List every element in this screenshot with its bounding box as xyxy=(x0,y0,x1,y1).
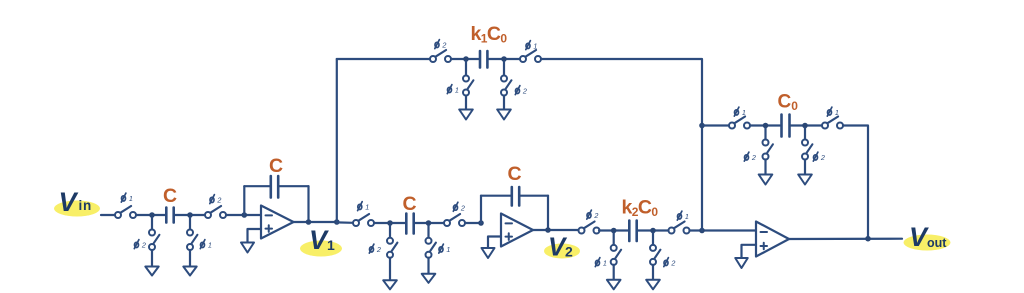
switch S15 phi1 (to ground) xyxy=(611,245,621,265)
svg-text:1: 1 xyxy=(603,259,607,268)
junction xyxy=(242,212,248,218)
switch S20 phi2 (to ground) xyxy=(802,140,812,160)
svg-text:2: 2 xyxy=(216,196,221,205)
junction xyxy=(802,123,808,129)
capacitor k2C0 xyxy=(629,221,636,242)
wire xyxy=(337,58,430,60)
switch S13 phi2 xyxy=(579,222,600,234)
wire (top branch to right corner and down) xyxy=(541,59,702,126)
svg-text:2: 2 xyxy=(670,259,675,268)
svg-text:V: V xyxy=(309,225,329,255)
svg-text:1: 1 xyxy=(835,108,839,117)
switch S12 phi1 (to ground) xyxy=(426,238,436,258)
junction xyxy=(611,228,617,234)
op-amp U2 xyxy=(501,214,533,247)
ground xyxy=(183,267,196,276)
label phi1 of S15 xyxy=(595,258,607,268)
wire xyxy=(279,185,309,187)
wire xyxy=(427,226,429,238)
capacitor C0 xyxy=(782,115,790,137)
label phi2 of S5 xyxy=(435,40,447,50)
junction xyxy=(699,228,705,234)
switch S3 phi2 (to ground) xyxy=(149,230,159,251)
svg-text:k1C0: k1C0 xyxy=(471,23,508,46)
label phi2 of S20 xyxy=(813,152,825,162)
label phi1 of S6 xyxy=(526,41,538,51)
wire xyxy=(503,96,505,110)
wire xyxy=(503,62,505,76)
wire xyxy=(804,128,806,139)
wire xyxy=(599,229,628,231)
switch S6 phi1 xyxy=(520,50,541,62)
label phi2 of S19 xyxy=(744,152,756,162)
junction xyxy=(463,56,469,62)
ground xyxy=(422,274,436,283)
highlight under Vout xyxy=(904,235,951,251)
label C (U2 feedback) xyxy=(508,163,522,185)
ground (U3) xyxy=(735,258,748,268)
label phi2 of S16 xyxy=(664,258,676,268)
label phi2 of S8 xyxy=(515,86,527,96)
junction xyxy=(650,228,656,234)
switch S1 phi1 xyxy=(115,206,136,218)
wire xyxy=(764,128,766,139)
svg-text:C: C xyxy=(508,163,522,185)
label C xyxy=(163,185,177,207)
wire xyxy=(613,265,615,280)
label Vin xyxy=(59,187,93,217)
wire (feedback right vertical) xyxy=(307,186,309,222)
svg-text:2: 2 xyxy=(460,203,465,212)
capacitor C (input sampling) xyxy=(166,208,173,223)
switch S2 phi2 xyxy=(205,206,226,218)
svg-text:1: 1 xyxy=(742,108,746,117)
label phi1 of S1 xyxy=(121,193,133,203)
label phi1 of S17 xyxy=(734,107,746,117)
label phi1 of S18 xyxy=(827,107,839,117)
junction xyxy=(478,220,484,226)
wire xyxy=(226,214,260,216)
switch S18 phi1 xyxy=(822,117,843,129)
svg-text:2: 2 xyxy=(376,245,381,254)
op-amp U3 xyxy=(756,222,789,257)
switch S7 phi1 (to ground) xyxy=(463,76,473,96)
svg-text:out: out xyxy=(927,236,947,250)
svg-text:1: 1 xyxy=(327,237,335,253)
label V2 xyxy=(548,232,573,262)
wire (U2 feedback right vertical) xyxy=(547,196,549,230)
wire xyxy=(764,160,766,175)
highlight under V1 xyxy=(300,241,342,257)
wire (U2 feedback left vertical) xyxy=(480,196,482,223)
junction xyxy=(763,123,769,129)
ground (U2) xyxy=(482,248,495,258)
wire xyxy=(652,265,654,280)
wire xyxy=(151,218,153,230)
wire xyxy=(175,214,205,216)
switch S5 phi2 xyxy=(430,50,451,62)
highlight under V2 xyxy=(544,244,580,259)
wire (C0 branch right corner down) xyxy=(843,126,868,239)
wire xyxy=(465,222,481,224)
label phi2 of S11 xyxy=(369,244,381,254)
label k2C0 xyxy=(622,197,659,220)
capacitor C (stage2 sampling) xyxy=(406,214,413,234)
capacitor C (U2 feedback) xyxy=(512,187,519,206)
wire xyxy=(638,229,669,231)
label phi2 of S13 xyxy=(587,210,599,220)
switch S19 phi2 (to ground) xyxy=(763,140,773,160)
wire xyxy=(465,96,467,110)
svg-text:2: 2 xyxy=(593,211,598,220)
wire xyxy=(465,62,467,76)
junction xyxy=(699,123,705,129)
ground xyxy=(798,175,812,185)
wire (U2 + input to ground) xyxy=(488,237,501,249)
svg-text:k2C0: k2C0 xyxy=(622,197,659,220)
label phi1 of S14 xyxy=(677,211,689,221)
svg-text:1: 1 xyxy=(129,194,133,203)
label phi1 of S4 xyxy=(200,240,212,250)
junction xyxy=(501,56,507,62)
wire xyxy=(244,185,270,187)
junction xyxy=(387,220,393,226)
label k1C0 xyxy=(471,23,508,46)
svg-text:V: V xyxy=(59,187,79,217)
ground xyxy=(607,280,621,290)
wire xyxy=(613,233,615,245)
label phi2 of S2 xyxy=(210,195,222,205)
wire xyxy=(804,160,806,175)
ground (U1) xyxy=(241,243,254,253)
label phi1 of S12 xyxy=(439,244,451,254)
wire (U2 output) xyxy=(533,229,579,231)
wire xyxy=(750,124,780,126)
ground xyxy=(759,175,773,185)
wire (V1 node up to k1C0 branch) xyxy=(336,59,338,222)
wire xyxy=(189,218,191,230)
junction xyxy=(334,219,340,225)
svg-text:1: 1 xyxy=(208,241,212,250)
wire xyxy=(489,58,520,60)
wire (U1 + input to ground) xyxy=(248,229,262,243)
wire (U3 output) xyxy=(789,238,902,241)
svg-text:2: 2 xyxy=(141,241,146,250)
wire xyxy=(652,233,654,245)
ground xyxy=(145,267,158,276)
svg-text:C: C xyxy=(163,185,177,207)
wire xyxy=(136,214,165,216)
label Vout xyxy=(909,222,947,252)
op-amp U1 xyxy=(261,206,294,239)
switch S11 phi2 (to ground) xyxy=(387,238,397,258)
label C (stage2) xyxy=(403,193,417,215)
wire (feedback left vertical) xyxy=(243,186,245,215)
highlight under Vin xyxy=(54,201,100,217)
svg-text:1: 1 xyxy=(446,245,450,254)
junction xyxy=(545,227,551,233)
switch S4 phi1 (to ground) xyxy=(187,230,197,251)
label V1 xyxy=(309,225,335,255)
capacitor k1C0 xyxy=(480,51,487,68)
svg-text:in: in xyxy=(79,198,93,213)
svg-text:1: 1 xyxy=(455,86,459,95)
svg-text:C0: C0 xyxy=(778,92,799,114)
wire xyxy=(101,214,115,216)
junction xyxy=(306,219,312,225)
switch S10 phi2 xyxy=(444,214,465,226)
svg-text:V: V xyxy=(909,222,929,252)
switch S17 phi1 xyxy=(729,117,750,129)
svg-text:2: 2 xyxy=(565,244,573,260)
wire xyxy=(451,58,479,60)
wire (node down to U3 input) xyxy=(701,126,703,231)
label phi1 of S9 xyxy=(358,202,370,212)
wire xyxy=(189,250,191,267)
label phi2 of S10 xyxy=(453,202,465,212)
wire xyxy=(791,124,822,126)
wire xyxy=(374,222,405,224)
svg-text:2: 2 xyxy=(751,153,756,162)
junction xyxy=(187,212,193,218)
wire (U3 + input to ground) xyxy=(742,245,757,258)
label C (U1 feedback) xyxy=(269,155,283,177)
ground xyxy=(646,280,660,290)
svg-text:1: 1 xyxy=(533,42,537,51)
wire xyxy=(415,222,444,224)
junction xyxy=(865,236,871,242)
svg-text:2: 2 xyxy=(441,41,446,50)
svg-text:C: C xyxy=(403,193,417,215)
svg-text:2: 2 xyxy=(820,153,825,162)
wire xyxy=(389,258,391,281)
junction xyxy=(149,212,155,218)
ground xyxy=(497,110,511,120)
wire (U1 output) xyxy=(294,221,337,223)
wire xyxy=(481,195,511,197)
label phi2 of S3 xyxy=(134,240,146,250)
wire xyxy=(337,221,353,224)
junction xyxy=(426,220,432,226)
svg-text:1: 1 xyxy=(365,203,369,212)
ground xyxy=(383,280,397,289)
switch S9 phi1 xyxy=(353,214,374,226)
wire xyxy=(702,124,729,126)
label phi1 of S7 xyxy=(447,85,459,95)
wire xyxy=(520,195,548,197)
switch S8 phi2 (to ground) xyxy=(501,76,511,96)
switch S14 phi1 xyxy=(669,222,690,234)
svg-text:C: C xyxy=(269,155,283,177)
switch S16 phi2 (to ground) xyxy=(650,245,660,265)
wire xyxy=(151,250,153,267)
wire xyxy=(389,226,391,238)
label C0 xyxy=(778,92,799,114)
wire xyxy=(427,258,429,274)
ground xyxy=(459,110,473,120)
wire xyxy=(690,229,757,231)
svg-text:1: 1 xyxy=(685,212,689,221)
capacitor C (U1 feedback) xyxy=(271,176,278,198)
svg-text:2: 2 xyxy=(522,87,527,96)
